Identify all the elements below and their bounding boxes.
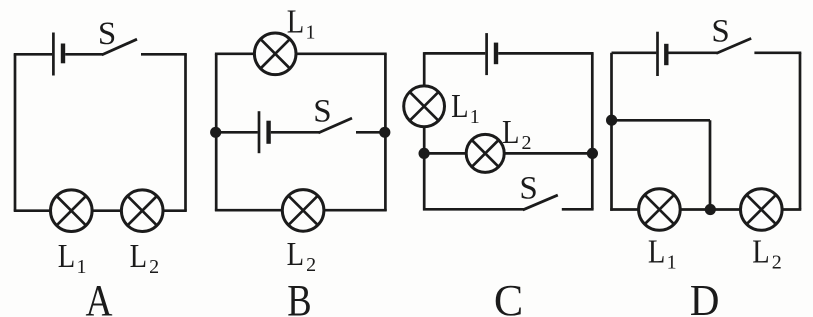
battery C long plate	[485, 33, 488, 75]
wire A top-left to battery	[14, 53, 52, 56]
label L1 (D)	[648, 232, 677, 273]
switch S (B) blade	[318, 118, 352, 133]
svg-text:2: 2	[772, 252, 782, 274]
wire A battery to switch	[65, 53, 103, 56]
svg-text:S: S	[711, 14, 729, 50]
battery B short plate	[266, 121, 270, 144]
label L1 (A)	[58, 237, 87, 278]
battery A long plate	[52, 33, 55, 76]
wire C left lower (lamp to bottom corner)	[423, 126, 426, 210]
node dot B left	[210, 127, 221, 138]
svg-text:L: L	[451, 87, 468, 125]
label L1 (C)	[451, 87, 480, 128]
battery D long plate	[656, 32, 659, 76]
label L2 (B)	[287, 235, 317, 276]
wire D bottom	[610, 208, 801, 211]
svg-text:1: 1	[470, 106, 480, 128]
svg-text:S: S	[519, 171, 537, 207]
wire C middle branch left	[424, 152, 467, 155]
lamp L1 (C)	[404, 86, 445, 127]
wire C left upper (to lamp L1)	[423, 52, 426, 86]
svg-text:S: S	[98, 16, 116, 52]
switch S (C) blade	[523, 195, 558, 210]
wire B bottom	[215, 209, 387, 212]
svg-text:C: C	[494, 276, 523, 317]
wire D top-left to battery	[612, 51, 657, 54]
battery A short plate	[61, 44, 65, 64]
svg-text:2: 2	[306, 254, 316, 276]
wire C bottom-left to switch	[423, 208, 524, 211]
wire D left side	[610, 53, 613, 211]
wire B top	[215, 52, 387, 55]
wire D after switch	[754, 51, 801, 54]
lamp L2 (C)	[466, 134, 504, 172]
svg-text:1: 1	[667, 252, 677, 274]
wire B battery to switch	[271, 131, 320, 134]
lamp L2 (A)	[121, 190, 163, 232]
node dot C right	[587, 148, 598, 159]
wire D right side	[799, 53, 802, 210]
wire B left side	[215, 54, 218, 211]
svg-text:S: S	[313, 94, 331, 130]
node dot C left	[419, 148, 430, 159]
switch S (A) blade	[102, 39, 137, 55]
wire A bottom	[14, 209, 187, 212]
lamp L1 (B)	[254, 33, 296, 75]
svg-text:L: L	[287, 2, 304, 40]
svg-text:2: 2	[522, 132, 532, 154]
svg-text:L: L	[752, 232, 769, 270]
label L2 (C)	[502, 113, 532, 154]
wire B switch to right node	[356, 131, 385, 134]
lamp L1 (D)	[639, 189, 681, 231]
lamp L2 (B)	[282, 190, 324, 232]
svg-text:L: L	[130, 237, 147, 275]
lamp L1 (A)	[51, 190, 93, 232]
svg-text:L: L	[287, 235, 304, 273]
node dot B right	[379, 127, 390, 138]
switch S (D) blade	[716, 38, 751, 53]
lamp L2 (D)	[741, 189, 783, 231]
wire A right side	[184, 54, 187, 210]
svg-text:D: D	[690, 277, 720, 317]
wire C battery to right corner	[498, 52, 593, 55]
label L1 (B)	[287, 2, 316, 43]
svg-text:1: 1	[306, 22, 316, 44]
battery D short plate	[664, 44, 668, 65]
svg-text:B: B	[287, 276, 311, 317]
label L2 (A)	[130, 237, 160, 278]
wire A left side	[14, 54, 17, 210]
svg-text:L: L	[58, 237, 75, 275]
wire B middle branch left	[216, 131, 258, 134]
svg-text:L: L	[502, 113, 519, 151]
svg-text:2: 2	[149, 256, 159, 278]
node dot D bottom	[705, 204, 716, 215]
wire C after switch	[562, 208, 594, 211]
wire D inner vertical	[709, 120, 712, 209]
svg-text:L: L	[648, 232, 665, 270]
wire A after switch	[141, 53, 187, 56]
svg-text:A: A	[85, 276, 112, 317]
wire D battery to switch	[669, 51, 718, 54]
wire C top-left to battery	[424, 52, 485, 55]
battery B long plate	[258, 111, 261, 153]
wire C middle branch right	[504, 152, 593, 155]
label L2 (D)	[752, 232, 782, 273]
battery C short plate	[494, 43, 498, 65]
wire C right side	[591, 53, 594, 209]
svg-text:1: 1	[77, 256, 87, 278]
node dot D left	[606, 115, 617, 126]
wire B right side	[384, 54, 387, 211]
wire D inner horizontal	[612, 119, 710, 122]
